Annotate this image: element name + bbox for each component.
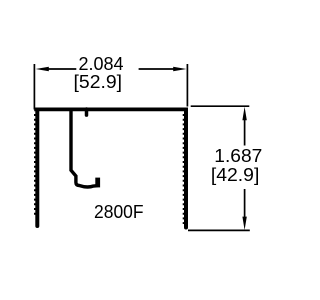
- right leg: [184, 110, 188, 228]
- svg-text:2800F: 2800F: [94, 202, 144, 222]
- vertical dimension line upper segment: [244, 120, 246, 146]
- left leg: [35, 110, 39, 226]
- top dimension left arrow: [36, 67, 49, 71]
- svg-text:2.084: 2.084: [78, 54, 123, 74]
- svg-text:[52.9]: [52.9]: [74, 72, 123, 92]
- top dimension right arrow: [173, 67, 186, 71]
- vertical dim top extension line: [191, 105, 250, 107]
- svg-text:[42.9]: [42.9]: [211, 165, 260, 185]
- right leg knurl ticks: [183, 114, 185, 224]
- vertical dimension line lower segment: [244, 189, 246, 218]
- hook lip: [95, 178, 100, 188]
- left extension line: [33, 64, 35, 110]
- vertical dimension top arrow: [242, 107, 246, 120]
- profile top bar: [34, 108, 188, 112]
- left leg knurl ticks: [34, 114, 36, 217]
- vertical dimension bottom arrow: [242, 217, 246, 230]
- svg-text:1.687: 1.687: [214, 146, 262, 166]
- top dimension line right segment: [139, 68, 175, 70]
- vertical dim bottom extension line: [188, 229, 250, 231]
- nub on bar: [85, 109, 89, 115]
- inner hook channel wall: [71, 108, 98, 187]
- top dimension line left segment: [48, 68, 77, 70]
- right extension line: [186, 64, 188, 107]
